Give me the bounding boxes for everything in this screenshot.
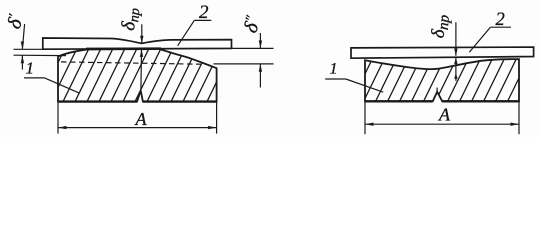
- svg-text:δпр: δпр: [118, 7, 143, 32]
- extension line of plate bottom (left side): [14, 48, 43, 50]
- delta prime dimension arrows: [21, 24, 25, 70]
- thick contact line, left figure: [86, 47, 161, 50]
- svg-text:A: A: [135, 109, 148, 129]
- A dimension (left figure): [58, 102, 217, 134]
- svg-text:1: 1: [330, 61, 338, 78]
- hatching of block 1, left figure: [22, 38, 263, 113]
- svg-text:1: 1: [26, 59, 35, 78]
- svg-text:A: A: [438, 105, 451, 125]
- svg-text:δпр: δпр: [429, 13, 453, 39]
- block 1 outline (lower part, left figure): [58, 49, 217, 102]
- delta pr dimension (left figure center): [140, 24, 144, 90]
- delta pr dimension (right figure): [454, 22, 457, 81]
- block 1 bottom edge thick (right figure): [365, 100, 433, 102]
- block 1 outline (right figure): [365, 59, 519, 101]
- plate 2 (upper part, left figure): [43, 38, 232, 49]
- extension line lower (delta prime): [14, 54, 67, 56]
- svg-text:δ′: δ′: [3, 12, 28, 32]
- extension line lower (delta double prime): [214, 63, 274, 65]
- svg-text:δ″: δ″: [240, 14, 266, 36]
- delta double prime arrows: [259, 33, 262, 88]
- block 1 bottom edge thick (left figure): [58, 100, 137, 102]
- hatching of block 1, right figure: [332, 43, 540, 118]
- plate 2 (right figure): [351, 47, 534, 58]
- dashed original surface, left figure: [61, 62, 207, 64]
- A dimension (right figure): [365, 102, 519, 135]
- extension line of plate bottom (right of left figure): [232, 47, 274, 49]
- V-notch tick (right figure): [436, 88, 438, 92]
